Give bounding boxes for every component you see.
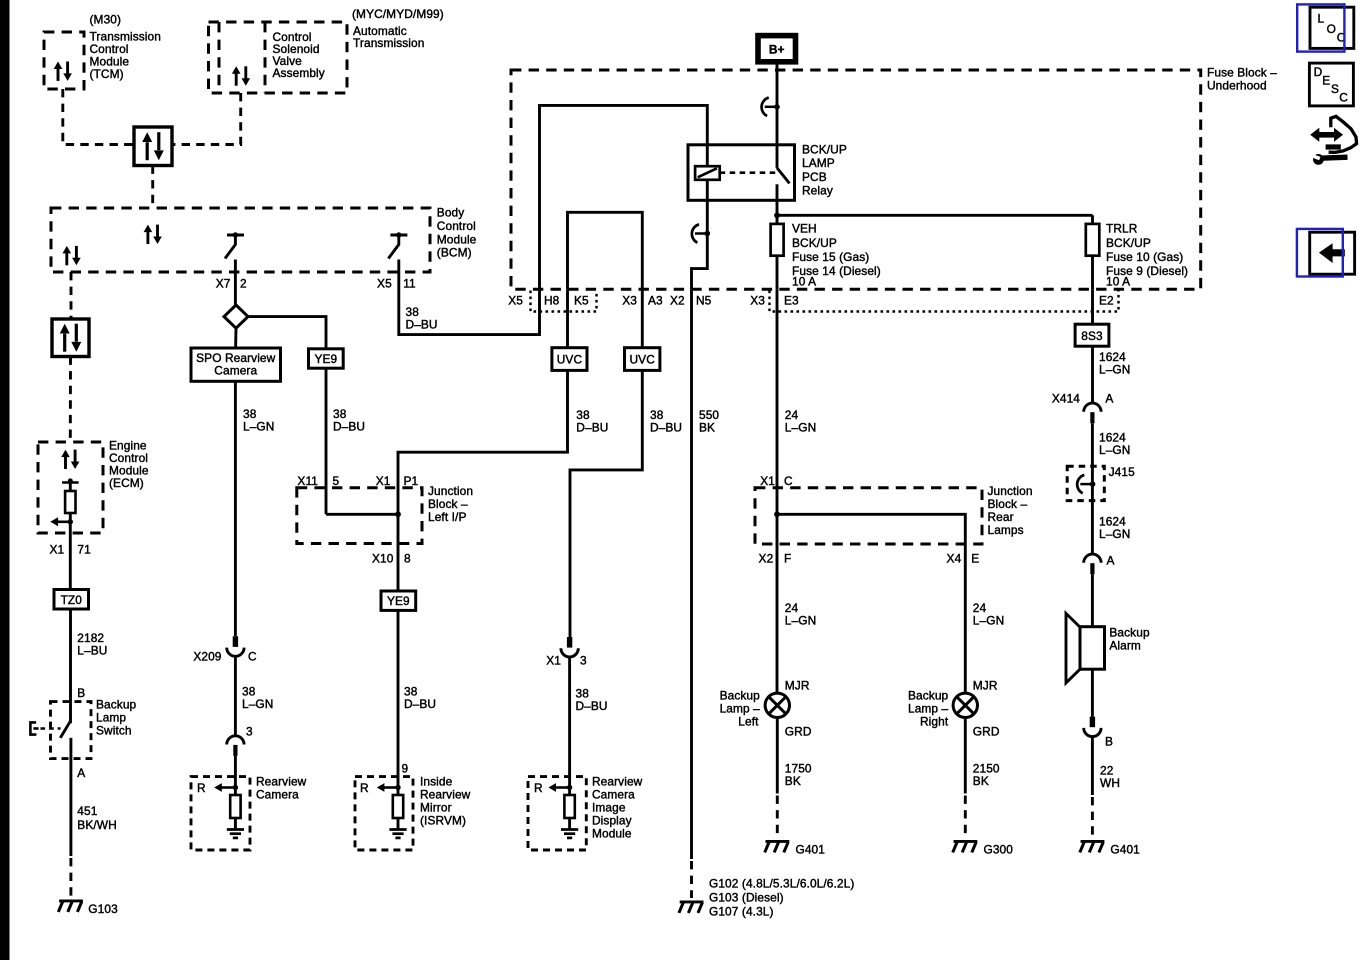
wire fuse block internal K5-A3 link — [568, 212, 643, 289]
svg-text:X1: X1 — [376, 474, 391, 488]
scan border bar — [0, 0, 10, 960]
BCM driver switch X7-2 — [225, 232, 244, 258]
inline connector on coil wire — [692, 224, 710, 242]
wire ECM to TZ0 — [69, 533, 72, 590]
svg-text:Backup: Backup — [720, 689, 761, 703]
svg-text:L–GN: L–GN — [785, 614, 816, 628]
svg-text:X2: X2 — [759, 551, 774, 565]
svg-text:O: O — [1327, 22, 1336, 36]
wire CSVA to data link connector (dashed) — [173, 93, 241, 145]
connector dotted box E3-E2 — [770, 291, 1119, 312]
svg-text:Block –: Block – — [428, 497, 468, 511]
svg-text:8S3: 8S3 — [1081, 329, 1103, 343]
wire TZ0 to backup lamp switch, circuit 2182 L-BU — [69, 609, 72, 723]
display module dashed box — [528, 777, 586, 850]
svg-text:Lamp: Lamp — [96, 711, 126, 725]
svg-text:BK: BK — [699, 421, 715, 435]
relay actuation dashed link — [720, 171, 777, 174]
svg-text:X4: X4 — [947, 551, 962, 565]
connector pin B — [1084, 717, 1101, 737]
wire DLC to BCM (dashed) — [151, 166, 154, 209]
svg-text:L–GN: L–GN — [242, 697, 273, 711]
net code box 8S3 — [1075, 324, 1109, 346]
backup lamp left — [765, 693, 789, 717]
svg-text:5: 5 — [333, 474, 340, 488]
svg-text:Module: Module — [437, 232, 477, 246]
svg-text:B: B — [77, 686, 85, 700]
svg-text:A3: A3 — [648, 294, 663, 308]
svg-text:451: 451 — [77, 804, 97, 818]
wire fuse block internal H8 feed — [540, 105, 708, 289]
svg-text:Lamp –: Lamp – — [720, 702, 761, 716]
rearview camera dashed box — [191, 777, 250, 850]
svg-text:Junction: Junction — [428, 484, 473, 498]
splice dot at relay output — [774, 212, 780, 218]
assembly outer dashed box — [209, 22, 348, 93]
BCM driver switch X5-11 — [388, 232, 407, 258]
connector X209 pin C — [227, 636, 244, 656]
svg-text:D–BU: D–BU — [576, 421, 608, 435]
svg-text:L–GN: L–GN — [785, 421, 816, 435]
data link connector box 2 — [52, 319, 89, 357]
ground G102 G103 G107 — [679, 902, 704, 913]
ECM internal node bar — [62, 481, 79, 484]
svg-text:X2: X2 — [670, 294, 685, 308]
serial data symbol DLC — [142, 132, 164, 160]
svg-text:C: C — [784, 474, 793, 488]
icon LOC — [1297, 4, 1354, 51]
net code box YE9 (top) — [309, 349, 344, 368]
svg-text:Backup: Backup — [1109, 626, 1150, 640]
icon exchange-wrench — [1310, 116, 1356, 164]
svg-text:G107 (4.3L): G107 (4.3L) — [709, 905, 774, 919]
data link connector box — [134, 127, 172, 166]
wire H8 pin to UVC 1 — [566, 289, 569, 347]
svg-text:(TCM): (TCM) — [90, 67, 124, 81]
svg-text:(M30): (M30) — [90, 13, 122, 27]
wire E2 to 8S3 — [1091, 289, 1094, 324]
wire diamond to YE9 — [248, 317, 326, 349]
svg-text:Block –: Block – — [988, 497, 1028, 511]
svg-text:Rear: Rear — [988, 510, 1014, 524]
ground G103 — [58, 901, 83, 912]
wire BCM to DLC2 (dashed) — [70, 272, 73, 319]
connector pin A — [1084, 554, 1101, 574]
wire DLC2 to ECM (dashed) — [69, 357, 72, 443]
svg-text:YE9: YE9 — [314, 352, 337, 366]
svg-text:(BCM): (BCM) — [437, 246, 472, 260]
svg-text:X5: X5 — [377, 276, 392, 290]
wire 8S3 to X414, circuit 1624 L-GN — [1091, 346, 1094, 404]
svg-text:X7: X7 — [216, 276, 231, 290]
svg-text:L: L — [1318, 12, 1325, 26]
svg-text:3: 3 — [580, 654, 587, 668]
actuator dashed link — [41, 727, 61, 730]
relay coil — [695, 166, 720, 180]
wire to display module, circuit 38 D-BU — [568, 657, 571, 788]
connector dotted box H8-K5 — [531, 291, 597, 312]
svg-text:X209: X209 — [193, 650, 221, 664]
switch lever — [60, 721, 70, 738]
svg-text:E3: E3 — [784, 294, 799, 308]
wire TCM to data link connector (dashed) — [63, 89, 134, 145]
svg-text:Rearview: Rearview — [420, 788, 471, 802]
serial data symbol BCM top — [144, 225, 162, 244]
wire relay output to TRLR fuse — [777, 214, 1093, 217]
component box SPO Rearview Camera — [191, 348, 281, 381]
svg-text:Image: Image — [592, 801, 626, 815]
svg-text:G401: G401 — [796, 842, 826, 856]
junction block internal link to X4 E — [777, 514, 965, 544]
backup lamp right — [953, 693, 977, 717]
svg-text:BCK/UP: BCK/UP — [802, 143, 847, 157]
svg-text:R: R — [360, 781, 369, 795]
svg-text:C: C — [248, 650, 257, 664]
wire X4 E to right lamp, circuit 24 L-GN — [964, 544, 967, 693]
svg-text:UVC: UVC — [629, 352, 655, 366]
wire relay coil to N5 — [692, 180, 708, 289]
svg-text:Switch: Switch — [96, 724, 132, 738]
svg-text:G102 (4.8L/5.3L/6.0L/6.2L): G102 (4.8L/5.3L/6.0L/6.2L) — [709, 877, 854, 891]
svg-text:(ISRVM): (ISRVM) — [420, 814, 466, 828]
wire A3 pin to UVC 2 — [641, 289, 644, 347]
svg-text:Mirror: Mirror — [420, 801, 452, 815]
svg-text:D–BU: D–BU — [650, 421, 682, 435]
svg-text:(MYC/MYD/M99): (MYC/MYD/M99) — [352, 7, 444, 21]
net code box UVC 1 — [552, 348, 587, 371]
inline connector on B+ feed — [762, 98, 780, 116]
svg-text:BK: BK — [973, 774, 989, 788]
svg-text:VEH: VEH — [792, 222, 817, 236]
svg-text:Backup: Backup — [908, 689, 949, 703]
wire YE9 to junction block — [325, 368, 328, 514]
fuse TRLR BCK/UP — [1086, 224, 1100, 256]
svg-text:Underhood: Underhood — [1207, 79, 1267, 93]
wire X414 to J415, circuit 1624 L-GN — [1091, 423, 1094, 484]
svg-text:E: E — [1322, 74, 1330, 88]
svg-text:Transmission: Transmission — [353, 36, 424, 50]
svg-text:X5: X5 — [508, 294, 523, 308]
wire X209 to camera, circuit 38 L-GN — [234, 656, 237, 736]
svg-text:L–GN: L–GN — [973, 614, 1004, 628]
svg-text:X3: X3 — [750, 294, 765, 308]
svg-text:L–GN: L–GN — [1099, 362, 1130, 376]
wire diamond to SPO box — [234, 328, 237, 348]
svg-text:R: R — [534, 781, 543, 795]
svg-text:X414: X414 — [1052, 392, 1080, 406]
module ECM dashed box — [38, 442, 103, 533]
svg-text:L–GN: L–GN — [1099, 527, 1130, 541]
fuse VEH BCK/UP — [771, 224, 784, 256]
svg-text:GRD: GRD — [785, 725, 812, 739]
svg-text:N5: N5 — [696, 294, 712, 308]
svg-text:X1: X1 — [760, 474, 775, 488]
svg-text:Camera: Camera — [214, 363, 257, 377]
ground G401 left — [765, 841, 790, 852]
display module internal resistor to ground — [548, 783, 578, 838]
wire through VEH fuse to E3 — [776, 215, 779, 289]
svg-text:Lamp –: Lamp – — [908, 702, 949, 716]
svg-text:WH: WH — [1100, 776, 1120, 790]
wire B to G401, circuit 22 WH — [1091, 736, 1094, 795]
svg-text:Rearview: Rearview — [592, 775, 643, 789]
svg-text:PCB: PCB — [802, 170, 827, 184]
svg-text:G103: G103 — [88, 902, 118, 916]
camera internal resistor to ground — [214, 783, 244, 838]
junction block left IP dashed box — [297, 488, 422, 544]
svg-text:(ECM): (ECM) — [109, 476, 144, 490]
inline splice J415 dashed box — [1067, 466, 1104, 500]
svg-text:UVC: UVC — [557, 352, 583, 366]
svg-text:MJR: MJR — [973, 679, 998, 693]
svg-text:E: E — [971, 551, 979, 565]
svg-text:L–BU: L–BU — [77, 643, 107, 657]
svg-text:Relay: Relay — [802, 183, 833, 197]
svg-text:Backup: Backup — [96, 698, 137, 712]
net code box TZ0 — [54, 590, 89, 610]
svg-text:Fuse 15 (Gas): Fuse 15 (Gas) — [792, 250, 869, 264]
svg-text:8: 8 — [404, 551, 411, 565]
splice diamond — [224, 305, 248, 328]
svg-text:A: A — [1105, 392, 1113, 406]
switch actuator bracket — [30, 722, 36, 734]
svg-text:10 A: 10 A — [792, 275, 816, 289]
svg-text:G401: G401 — [1110, 842, 1140, 856]
ECM sense resistor and internal ground arrow — [69, 483, 72, 492]
wire A to backup alarm — [1091, 574, 1094, 627]
wire YE9 to ISRVM, circuit 38 D-BU — [397, 610, 400, 787]
wire J415 to A, circuit 1624 L-GN — [1091, 484, 1094, 554]
svg-text:Inside: Inside — [420, 775, 453, 789]
splice dot — [395, 511, 401, 517]
svg-text:Left I/P: Left I/P — [428, 510, 466, 524]
svg-text:Control: Control — [437, 219, 476, 233]
svg-text:Camera: Camera — [256, 788, 299, 802]
svg-text:D–BU: D–BU — [406, 318, 438, 332]
svg-text:G300: G300 — [984, 842, 1014, 856]
svg-text:Fuse Block –: Fuse Block – — [1207, 66, 1277, 80]
svg-text:Display: Display — [592, 814, 632, 828]
svg-text:A: A — [1107, 554, 1115, 568]
svg-text:F: F — [784, 551, 791, 565]
ISRVM dashed box — [355, 777, 413, 850]
wire to YE9 (bottom) — [397, 544, 400, 592]
svg-text:BCK/UP: BCK/UP — [1106, 236, 1151, 250]
svg-text:11: 11 — [403, 276, 416, 290]
svg-text:A: A — [77, 766, 85, 780]
svg-text:C: C — [1339, 90, 1348, 104]
svg-text:L–GN: L–GN — [1099, 443, 1130, 457]
wire lamp left to G401, circuit 1750 BK — [776, 718, 779, 794]
serial data symbol CSVA — [232, 66, 250, 85]
splice dot rear junction — [774, 511, 780, 517]
wire alarm to B — [1091, 669, 1094, 716]
svg-text:2: 2 — [240, 276, 247, 290]
icon DESC — [1309, 63, 1353, 106]
switch lower contact wire — [69, 738, 72, 856]
svg-text:BK/WH: BK/WH — [77, 818, 116, 832]
svg-text:TZ0: TZ0 — [61, 593, 83, 607]
svg-text:K5: K5 — [574, 294, 589, 308]
svg-text:J415: J415 — [1109, 465, 1135, 479]
inner dashed divider left — [218, 22, 221, 93]
wire E3 to left lamp, circuit 24 L-GN — [776, 289, 779, 693]
svg-text:BCK/UP: BCK/UP — [792, 236, 837, 250]
svg-text:9: 9 — [402, 762, 409, 776]
serial data symbol ECM — [61, 450, 79, 469]
serial data symbol TCM — [54, 61, 72, 80]
svg-text:X11: X11 — [297, 474, 318, 488]
svg-text:B: B — [1105, 735, 1113, 749]
relay switch — [776, 145, 779, 168]
svg-text:GRD: GRD — [973, 725, 1000, 739]
net code box UVC 2 — [625, 348, 660, 371]
svg-text:BK: BK — [785, 774, 801, 788]
inline connector in J415 — [1077, 475, 1095, 493]
svg-text:X1: X1 — [49, 542, 64, 556]
wire N5 to engine ground, circuit 550 BK — [690, 289, 693, 859]
svg-text:R: R — [197, 781, 206, 795]
wire SPO camera down, circuit 38 L-GN — [234, 381, 237, 636]
svg-text:MJR: MJR — [785, 679, 810, 693]
wire B+ to relay — [776, 62, 779, 145]
wire lamp right to G300, circuit 2150 BK — [964, 718, 967, 794]
svg-text:Lamps: Lamps — [988, 523, 1024, 537]
svg-text:X3: X3 — [622, 294, 637, 308]
ground G401 right — [1080, 841, 1105, 852]
svg-text:YE9: YE9 — [387, 594, 410, 608]
svg-text:Right: Right — [920, 715, 949, 729]
svg-text:H8: H8 — [544, 294, 560, 308]
svg-text:G103 (Diesel): G103 (Diesel) — [709, 891, 784, 905]
svg-text:L–GN: L–GN — [243, 420, 274, 434]
fuse block dashed box — [511, 70, 1201, 289]
svg-text:B+: B+ — [769, 42, 785, 56]
svg-text:Junction: Junction — [988, 484, 1033, 498]
svg-text:Fuse 10 (Gas): Fuse 10 (Gas) — [1106, 250, 1183, 264]
wire BCM X7-2 down — [234, 260, 237, 306]
wire UVC K5 branch through X1 P1 — [398, 370, 568, 543]
wire to TRLR fuse to E2 — [1091, 215, 1094, 289]
ISRVM internal resistor to ground — [377, 783, 407, 838]
svg-text:S: S — [1331, 82, 1339, 96]
battery feed B+ box — [758, 36, 796, 62]
module BCM dashed box — [51, 208, 430, 272]
svg-text:D–BU: D–BU — [404, 697, 436, 711]
svg-text:X1: X1 — [546, 654, 561, 668]
connector X1 pin 3 — [561, 637, 578, 657]
svg-text:D: D — [1314, 65, 1323, 79]
svg-text:Module: Module — [592, 827, 632, 841]
svg-text:3: 3 — [246, 724, 253, 738]
serial data symbol DLC2 — [60, 324, 82, 352]
svg-text:P1: P1 — [404, 474, 419, 488]
svg-text:Assembly: Assembly — [273, 66, 325, 80]
ground G300 — [953, 841, 978, 852]
wire to G103 (dashed end) — [69, 858, 72, 898]
svg-text:71: 71 — [77, 542, 91, 556]
svg-text:Left: Left — [738, 715, 759, 729]
svg-text:Rearview: Rearview — [256, 775, 307, 789]
svg-text:Camera: Camera — [592, 788, 635, 802]
svg-text:X10: X10 — [372, 551, 394, 565]
wire UVC2 to display module — [570, 370, 642, 637]
junction block internal link — [326, 513, 398, 516]
svg-text:10 A: 10 A — [1106, 275, 1130, 289]
relay box BCK/UP LAMP PCB Relay — [688, 145, 795, 201]
svg-text:D–BU: D–BU — [333, 420, 365, 434]
serial data symbol BCM left — [63, 246, 81, 265]
backup alarm speaker — [1066, 613, 1081, 683]
wire X5-11 to underhood fuse block, circuit 38 D-BU — [399, 260, 540, 335]
svg-text:TRLR: TRLR — [1106, 222, 1138, 236]
module TCM dashed box — [44, 32, 84, 89]
svg-text:LAMP: LAMP — [802, 156, 835, 170]
inner dashed divider mid — [264, 22, 267, 93]
net code box YE9 (bottom) — [381, 591, 416, 610]
icon back-arrow — [1297, 229, 1355, 277]
svg-text:Body: Body — [437, 206, 465, 220]
junction block rear lamps dashed box — [755, 488, 982, 544]
svg-text:D–BU: D–BU — [576, 699, 608, 713]
backup lamp switch dashed box — [51, 702, 92, 759]
svg-text:E2: E2 — [1099, 294, 1114, 308]
svg-text:Alarm: Alarm — [1109, 639, 1141, 653]
